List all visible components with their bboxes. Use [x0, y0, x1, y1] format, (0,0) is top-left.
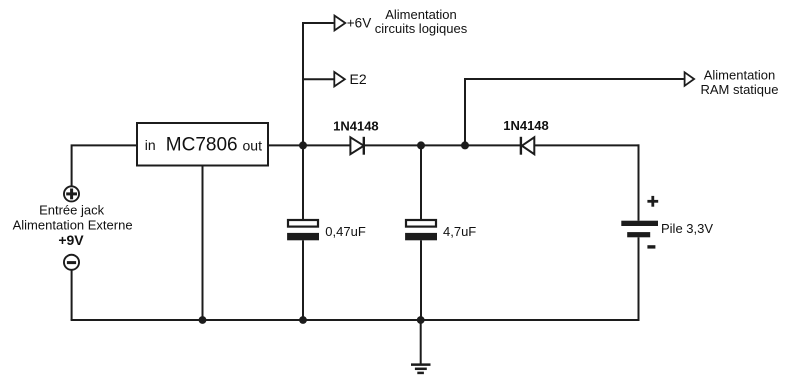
ground — [411, 365, 431, 373]
regulator U1 MC7806 — [137, 123, 268, 166]
svg-text:Alimentation Externe: Alimentation Externe — [13, 217, 133, 232]
svg-text:Pile 3,3V: Pile 3,3V — [661, 221, 713, 236]
label Alimentation circuits logiques — [375, 7, 468, 36]
wire input jack to regulator in — [72, 145, 137, 187]
wire logic supply column upper — [302, 23, 304, 219]
battery plus plate — [621, 221, 658, 226]
node junction regulator ground at bottom rail — [199, 316, 207, 324]
arrow output RAM — [685, 72, 695, 86]
wire battery column lower — [638, 237, 640, 321]
wire minus terminal to bottom rail — [71, 269, 73, 320]
battery minus sign — [647, 245, 655, 248]
wire ground stub — [420, 320, 422, 364]
svg-text:RAM statique: RAM statique — [700, 82, 778, 97]
wire regulator out to diode D1 — [268, 144, 350, 146]
svg-text:Alimentation: Alimentation — [385, 7, 457, 22]
svg-text:+9V: +9V — [58, 232, 84, 248]
svg-text:0,47uF: 0,47uF — [325, 224, 366, 239]
wire +6V stub — [302, 22, 334, 24]
arrow output E2 — [334, 71, 367, 87]
wire C2 column lower — [420, 240, 422, 320]
capacitor C2 4,7uF — [405, 220, 476, 240]
svg-text:4,7uF: 4,7uF — [443, 224, 476, 239]
svg-text:MC7806: MC7806 — [166, 135, 238, 156]
node jack minus terminal — [64, 255, 79, 270]
wire C2 column upper — [420, 145, 422, 219]
svg-text:+6V: +6V — [347, 16, 371, 31]
wire regulator ground pin down — [202, 166, 204, 321]
node junction at RAM riser — [461, 141, 469, 149]
node jack plus terminal — [64, 186, 79, 201]
label Entree jack Alimentation Externe +9V — [13, 202, 133, 248]
svg-text:in: in — [145, 137, 156, 153]
svg-text:1N4148: 1N4148 — [503, 118, 549, 133]
label Alimentation RAM statique — [700, 67, 778, 97]
svg-text:Alimentation: Alimentation — [704, 67, 776, 82]
wire RAM supply riser — [465, 79, 684, 145]
wire battery column upper — [638, 144, 640, 220]
wire bottom ground rail — [71, 319, 639, 321]
svg-text:E2: E2 — [350, 71, 367, 87]
node junction ground stub at bottom rail — [417, 316, 425, 324]
diode D1 1N4148 — [333, 119, 379, 155]
wire D1 cathode to D2 cathode rail — [364, 144, 521, 146]
node junction at regulator output column — [299, 141, 307, 149]
wire logic supply column lower — [302, 240, 304, 320]
battery BT1 Pile 3,3V — [621, 196, 713, 247]
battery plus sign — [647, 196, 658, 207]
battery minus plate — [627, 232, 650, 237]
wire D2 anode to battery column — [534, 144, 639, 146]
arrow output +6V — [335, 16, 372, 31]
svg-text:out: out — [243, 137, 263, 153]
node junction at C2 top — [417, 141, 425, 149]
svg-text:Entrée jack: Entrée jack — [39, 202, 105, 217]
diode D2 1N4148 — [503, 118, 549, 155]
capacitor C1 0,47uF — [287, 220, 366, 240]
svg-text:circuits logiques: circuits logiques — [375, 21, 468, 36]
node junction C1 at bottom rail — [299, 316, 307, 324]
wire E2 stub — [302, 78, 334, 80]
svg-text:1N4148: 1N4148 — [333, 119, 379, 134]
